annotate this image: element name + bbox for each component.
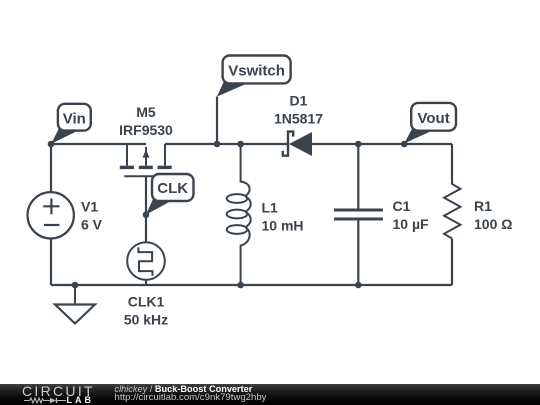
wire right rail R1 top xyxy=(451,144,453,184)
wire clock source bottom stub xyxy=(145,280,147,285)
inductor L1 xyxy=(227,144,251,285)
footer url line xyxy=(115,393,267,403)
svg-text:CLK: CLK xyxy=(157,180,188,197)
svg-text:10 µF: 10 µF xyxy=(393,216,430,232)
wire D1 anode to Vout/R1 xyxy=(312,143,452,145)
node dot L1 top xyxy=(237,141,244,148)
wire top rail Vin to M5 source xyxy=(51,143,146,145)
wire M5 gate to CLK node and clock source xyxy=(145,176,147,242)
node CLK flag xyxy=(146,174,194,215)
svg-text:V1: V1 xyxy=(81,199,98,215)
voltage source V1 xyxy=(28,192,74,238)
svg-text:L1: L1 xyxy=(262,200,279,216)
footer credit line xyxy=(115,384,253,394)
diode D1 Schottky 1N5817 xyxy=(283,132,312,156)
wire left rail V1 bottom xyxy=(50,239,52,286)
wire left rail V1 top xyxy=(50,144,52,192)
junction dots xyxy=(48,141,408,289)
wire bottom rail xyxy=(51,284,452,286)
wire M5 drain to D1 cathode xyxy=(165,143,287,145)
wire right rail R1 bottom xyxy=(451,239,453,286)
footer bar xyxy=(0,384,540,405)
svg-text:1N5817: 1N5817 xyxy=(274,111,323,127)
svg-text:C1: C1 xyxy=(393,198,411,214)
svg-text:6 V: 6 V xyxy=(81,217,103,233)
svg-text:Vswitch: Vswitch xyxy=(228,63,285,80)
node dot C1 top xyxy=(355,141,362,148)
clock source CLK1 xyxy=(127,242,165,280)
svg-text:10 mH: 10 mH xyxy=(262,218,304,234)
svg-text:Vout: Vout xyxy=(417,110,449,127)
node dot C1 bottom xyxy=(355,282,362,289)
CircuitLab logo xyxy=(22,385,95,398)
svg-text:50 kHz: 50 kHz xyxy=(124,312,168,328)
node dot CLK xyxy=(143,212,150,219)
node dot Vswitch xyxy=(214,141,221,148)
node dot L1 bottom xyxy=(237,282,244,289)
node Vswitch flag xyxy=(217,56,291,97)
svg-text:M5: M5 xyxy=(136,104,156,120)
resistor R1 xyxy=(444,184,460,239)
node Vin flag xyxy=(51,104,91,144)
node Vout flag xyxy=(404,103,456,143)
svg-text:CLK1: CLK1 xyxy=(128,294,165,310)
wire Vswitch stub xyxy=(216,97,218,145)
node dot Vin xyxy=(48,141,55,148)
node dot ground xyxy=(72,282,79,289)
svg-text:IRF9530: IRF9530 xyxy=(119,122,173,138)
wire C1 bottom stub xyxy=(357,221,359,286)
wire C1 top stub xyxy=(357,144,359,209)
transistor M5 PMOS IRF9530 xyxy=(124,144,167,176)
svg-text:100 Ω: 100 Ω xyxy=(474,216,512,232)
node dot Vout xyxy=(401,141,408,148)
svg-text:Vin: Vin xyxy=(63,110,86,127)
capacitor C1 xyxy=(334,210,383,219)
ground xyxy=(55,285,95,324)
svg-text:D1: D1 xyxy=(290,93,308,109)
svg-text:R1: R1 xyxy=(474,198,492,214)
